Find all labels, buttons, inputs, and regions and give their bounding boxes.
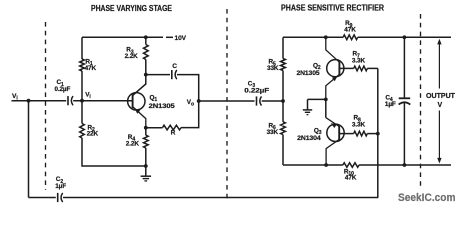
ground stage1 — [141, 166, 152, 181]
svg-text:2N1305: 2N1305 — [297, 70, 320, 77]
svg-text:SeekIC.com: SeekIC.com — [398, 192, 456, 204]
resistor R6 — [267, 101, 286, 165]
title right — [281, 4, 384, 13]
node C4 bottom rail — [403, 163, 407, 167]
node Vi internal — [80, 91, 91, 102]
resistor R feedback — [146, 101, 199, 137]
svg-text:10V: 10V — [175, 35, 187, 42]
svg-text:3.3K: 3.3K — [352, 58, 366, 65]
wire Q2Q3 link — [325, 99, 327, 117]
wire bottom return rail — [29, 197, 379, 199]
node emitter junction — [144, 126, 148, 130]
node Q2 collector rail — [324, 35, 328, 39]
svg-text:2.2K: 2.2K — [125, 53, 139, 60]
svg-text:22K: 22K — [87, 130, 99, 137]
resistor R4 — [126, 128, 148, 166]
resistor R8 — [339, 115, 378, 136]
wire Q3 collector — [326, 139, 339, 165]
label OUTPUT V — [426, 93, 456, 109]
wire Q2 collector — [326, 37, 340, 62]
svg-text:0.22µF: 0.22µF — [244, 87, 269, 94]
title left — [91, 4, 173, 13]
resistor R7 — [339, 51, 377, 71]
resistor R10 — [343, 163, 359, 182]
node R3 top — [144, 35, 148, 39]
svg-text:33K: 33K — [267, 129, 279, 136]
svg-text:0.2µF: 0.2µF — [55, 86, 71, 93]
svg-text:2N1304: 2N1304 — [297, 135, 321, 142]
resistor R2 — [80, 124, 99, 139]
svg-text:2N1305: 2N1305 — [149, 103, 175, 110]
wire output branch — [377, 68, 379, 197]
wire C1 to base — [73, 100, 132, 102]
svg-text:3.3K: 3.3K — [352, 122, 366, 129]
capacitor C1 — [55, 79, 74, 105]
node Q3 collector rail — [324, 163, 328, 167]
svg-text:33K: 33K — [267, 65, 279, 72]
wire C3 to node — [262, 100, 283, 102]
capacitor C4 — [385, 37, 410, 165]
svg-text:2.2K: 2.2K — [126, 140, 140, 147]
node Vo — [187, 99, 201, 108]
resistor R3 — [125, 37, 149, 74]
resistor R5 — [267, 37, 285, 101]
input label Vi — [12, 93, 18, 102]
resistor R9 — [343, 20, 358, 39]
ground rectifier — [303, 99, 326, 114]
dashed boundary middle — [226, 9, 228, 201]
wire rect top rail — [283, 36, 451, 38]
svg-text:47K: 47K — [344, 26, 356, 33]
transistor Q1 — [128, 93, 175, 128]
node C4 top rail — [403, 35, 407, 39]
resistor R1 — [80, 58, 97, 72]
node ground junction — [144, 164, 148, 168]
capacitor C — [146, 63, 199, 101]
wire input — [12, 100, 67, 102]
node rectifier input — [281, 99, 285, 103]
svg-text:C: C — [172, 63, 177, 70]
wire collector branch — [133, 75, 146, 96]
wire Q3 emitter — [326, 118, 339, 128]
output arrow — [437, 39, 441, 164]
label -10V — [166, 35, 187, 42]
wire top rail -10V — [82, 36, 163, 38]
svg-text:PHASE SENSITIVE RECTIFIER: PHASE SENSITIVE RECTIFIER — [281, 4, 384, 13]
wire Vo to C3 — [199, 100, 255, 102]
svg-text:R: R — [171, 130, 176, 137]
svg-text:1µF: 1µF — [55, 183, 66, 190]
transistor Q3 — [297, 124, 344, 142]
capacitor C3 — [244, 80, 269, 105]
svg-text:V: V — [438, 102, 443, 109]
wire input to C2 — [28, 101, 30, 198]
capacitor C2 — [55, 176, 66, 202]
wire Q2 emitter — [326, 74, 340, 99]
wire rect bottom rail — [283, 164, 451, 166]
svg-text:1µF: 1µF — [385, 101, 396, 108]
svg-text:47K: 47K — [345, 174, 357, 181]
node input junction — [27, 99, 31, 103]
svg-text:47K: 47K — [85, 65, 97, 72]
svg-text:OUTPUT: OUTPUT — [426, 93, 456, 100]
node R8 output — [376, 132, 380, 136]
watermark SeekIC.com — [398, 192, 456, 204]
wire left riser — [82, 37, 146, 166]
transistor Q2 — [297, 60, 344, 77]
dashed boundary left — [45, 22, 47, 190]
node collector junction — [144, 73, 148, 77]
dashed boundary right — [420, 14, 422, 190]
node midpoint ground — [324, 98, 328, 102]
svg-text:PHASE VARYING STAGE: PHASE VARYING STAGE — [91, 4, 173, 13]
